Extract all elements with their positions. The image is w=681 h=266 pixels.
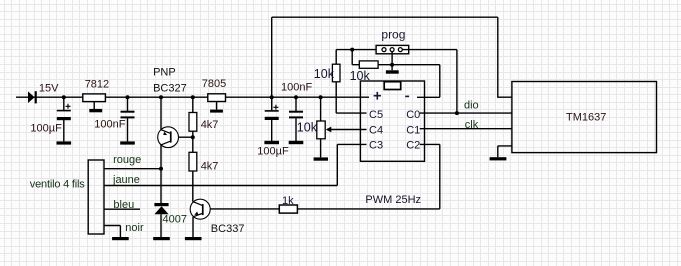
- svg-text:4k7: 4k7: [201, 119, 219, 131]
- svg-text:dio: dio: [464, 99, 479, 111]
- svg-text:4007: 4007: [163, 214, 187, 226]
- svg-text:4k7: 4k7: [201, 161, 219, 173]
- svg-text:BC327: BC327: [153, 82, 187, 94]
- svg-text:prog: prog: [381, 28, 405, 42]
- svg-text:10k: 10k: [350, 69, 371, 83]
- svg-text:TM1637: TM1637: [566, 111, 606, 123]
- svg-text:100µF: 100µF: [30, 123, 62, 135]
- svg-text:clk: clk: [465, 119, 479, 131]
- svg-text:ventilo 4 fils: ventilo 4 fils: [30, 179, 86, 191]
- svg-text:rouge: rouge: [113, 154, 141, 166]
- svg-text:10k: 10k: [297, 121, 318, 135]
- svg-text:C0: C0: [406, 109, 420, 121]
- svg-text:100nF: 100nF: [94, 119, 125, 131]
- svg-text:C4: C4: [369, 124, 383, 136]
- svg-text:C3: C3: [369, 140, 383, 152]
- svg-text:noir: noir: [125, 222, 144, 234]
- svg-text:PNP: PNP: [153, 67, 176, 79]
- svg-text:BC337: BC337: [211, 223, 245, 235]
- svg-text:C5: C5: [369, 109, 383, 121]
- svg-text:15V: 15V: [39, 83, 59, 95]
- svg-text:1k: 1k: [282, 195, 294, 207]
- svg-text:C2: C2: [406, 140, 420, 152]
- svg-text:bleu: bleu: [113, 199, 134, 211]
- svg-text:7805: 7805: [202, 78, 226, 90]
- svg-text:7812: 7812: [85, 78, 109, 90]
- svg-text:C1: C1: [406, 124, 420, 136]
- svg-text:jaune: jaune: [112, 174, 140, 186]
- svg-text:10k: 10k: [314, 67, 335, 81]
- svg-text:PWM 25Hz: PWM 25Hz: [365, 194, 421, 206]
- svg-text:100nF: 100nF: [281, 82, 312, 94]
- svg-text:100µF: 100µF: [257, 146, 289, 158]
